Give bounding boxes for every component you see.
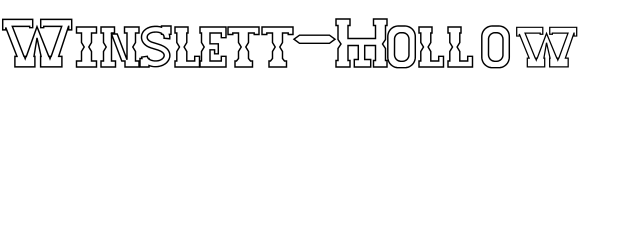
- small-cap letter o first of Hollow: [388, 26, 416, 68]
- capital H of Hollow: [336, 19, 387, 67]
- small-cap letter s: [140, 26, 171, 67]
- small-cap letter t first: [228, 27, 259, 67]
- small-cap letter l of Winslett: [175, 27, 200, 67]
- small-cap letter n: [101, 27, 139, 67]
- small-cap letter l second of Hollow: [419, 27, 444, 67]
- hyphen: [294, 35, 335, 43]
- capital W of Winslett: [3, 19, 72, 67]
- small-cap letter o second of Hollow: [482, 26, 510, 68]
- small-cap letter e: [200, 27, 226, 67]
- small-cap letter i: [77, 27, 97, 67]
- small-cap letter l third of Hollow: [448, 27, 473, 67]
- small-cap letter w final: [517, 27, 577, 67]
- small-cap letter t second: [262, 27, 293, 67]
